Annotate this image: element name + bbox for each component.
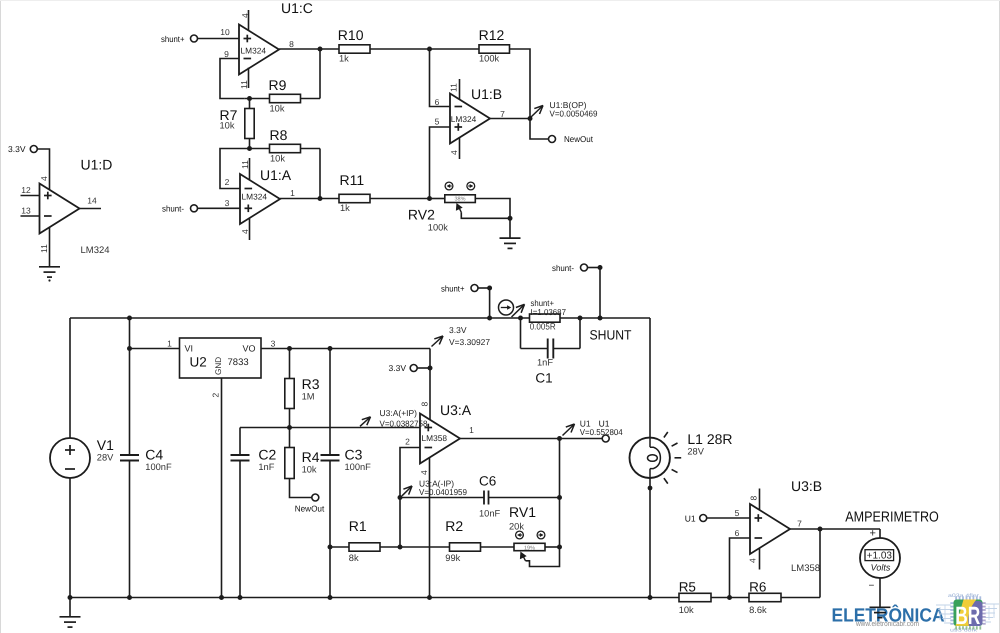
wire +IP row [240, 427, 420, 429]
svg-text:2: 2 [405, 437, 410, 447]
svg-text:R8: R8 [270, 127, 288, 143]
node shunt- rail [598, 316, 603, 321]
svg-text:U3:A(+IP): U3:A(+IP) [380, 408, 418, 418]
wire U1:C output [279, 39, 320, 49]
resistor R10 [320, 27, 430, 63]
svg-text:1k: 1k [340, 203, 350, 213]
node C3/R1 [328, 545, 333, 550]
svg-text:99k: 99k [445, 553, 460, 563]
svg-text:4: 4 [39, 176, 49, 181]
resistor R2 [400, 518, 514, 563]
svg-text:L1 28R: L1 28R [687, 431, 732, 447]
terminal U1 (to U3:B) [685, 508, 750, 524]
svg-text:R6: R6 [749, 579, 766, 594]
svg-text:11: 11 [39, 244, 49, 253]
wire V1 top [69, 318, 71, 438]
node R3/R4 [287, 425, 292, 430]
svg-text:0.005R: 0.005R [530, 322, 556, 332]
resistor R1 [330, 518, 400, 563]
capacitor C6 [400, 474, 560, 519]
resistor R9 [245, 77, 320, 114]
terminal shunt+ (mid) [441, 283, 492, 318]
label AMPERIMETRO [845, 509, 939, 525]
svg-text:LM324: LM324 [241, 46, 267, 56]
svg-text:4: 4 [240, 13, 250, 18]
node C4 bottom [127, 595, 132, 600]
svg-text:NewOut: NewOut [295, 503, 325, 513]
svg-text:R1: R1 [349, 518, 367, 534]
svg-text:1k: 1k [339, 53, 349, 63]
ground under U1:D [39, 267, 60, 282]
svg-text:1M: 1M [302, 392, 315, 402]
resistor R11 [320, 172, 430, 213]
wire U3:A output [460, 438, 602, 440]
svg-text:LM358: LM358 [422, 433, 448, 443]
svg-text:14: 14 [87, 196, 97, 206]
svg-text:RV1: RV1 [509, 504, 536, 520]
node C6 right [557, 495, 562, 500]
resistor R12 [430, 27, 531, 119]
resistor R3 [285, 349, 320, 428]
svg-text:R5: R5 [679, 579, 696, 594]
node U1:C output [318, 47, 323, 99]
svg-text:4: 4 [419, 470, 429, 475]
svg-text:8: 8 [289, 39, 294, 49]
svg-text:2: 2 [225, 177, 230, 187]
svg-text:3: 3 [225, 198, 230, 208]
svg-text:5: 5 [735, 508, 740, 518]
probe U1:B(OP) [531, 100, 598, 119]
svg-text:−: − [869, 580, 875, 591]
svg-text:LM324: LM324 [242, 191, 268, 201]
capacitor C1 [521, 318, 581, 386]
op-amp U3:B [748, 478, 823, 574]
svg-text:10k: 10k [679, 605, 694, 615]
svg-text:R4: R4 [302, 449, 320, 465]
logo ELETRONICA BR [832, 593, 1000, 633]
svg-text:8: 8 [420, 402, 430, 407]
probe U3:A(-IP) [402, 479, 467, 497]
node U1:A output [318, 196, 323, 201]
svg-text:U1:B: U1:B [471, 86, 502, 102]
wire V1 bottom [69, 478, 71, 598]
svg-text:R11: R11 [340, 172, 365, 188]
svg-text:AMPERIMETRO: AMPERIMETRO [845, 509, 939, 525]
svg-text:R9: R9 [269, 77, 287, 93]
svg-text:U2: U2 [190, 355, 207, 370]
probe 3.3V [432, 325, 491, 347]
ground under RV2 [500, 238, 521, 248]
node U2 gnd rail [219, 595, 224, 600]
svg-text:1: 1 [290, 188, 295, 198]
svg-text:I=1.03687: I=1.03687 [531, 307, 567, 317]
node -IP [398, 495, 403, 500]
svg-text:13: 13 [21, 206, 31, 216]
wire U1:B pin5 [430, 116, 451, 198]
wire U1:A feedback (pin2) [220, 149, 250, 189]
svg-text:C1: C1 [535, 371, 552, 386]
svg-text:20k: 20k [509, 522, 524, 532]
svg-text:10k: 10k [302, 464, 317, 474]
terminal U1 (output) [599, 418, 610, 442]
node C2 bottom [238, 595, 243, 600]
op-amp U1:A [240, 158, 292, 240]
svg-text:8.6k: 8.6k [749, 605, 767, 615]
svg-text:U1: U1 [685, 513, 696, 523]
svg-text:U3:B: U3:B [791, 478, 822, 494]
svg-text:U1: U1 [599, 418, 610, 428]
svg-text:1nF: 1nF [258, 462, 274, 472]
svg-text:1nF: 1nF [537, 358, 553, 368]
node C3 bottom rail [328, 595, 333, 600]
battery V1 [50, 437, 114, 478]
svg-text:4: 4 [748, 558, 758, 563]
resistor R4 [285, 428, 320, 498]
wire U1:B output [490, 109, 530, 119]
svg-text:www.eletronicabr.com: www.eletronicabr.com [855, 619, 919, 628]
svg-text:100k: 100k [428, 222, 449, 232]
svg-text:C4: C4 [145, 447, 163, 463]
svg-text:1: 1 [469, 425, 474, 435]
svg-text:+1.03: +1.03 [867, 551, 893, 562]
wire shunt+ to U1:C pin10 [198, 27, 239, 38]
node RV2 input [427, 196, 432, 201]
svg-text:4: 4 [449, 150, 459, 155]
svg-text:10nF: 10nF [479, 509, 501, 519]
node V1/ground rail [68, 595, 73, 600]
potentiometer RV2 [408, 182, 510, 238]
svg-text:LM324: LM324 [81, 245, 110, 256]
resistor R8 [250, 127, 321, 199]
svg-text:shunt-: shunt- [552, 263, 574, 273]
svg-text:BR: BR [955, 602, 980, 630]
svg-text:1: 1 [167, 338, 172, 348]
node R3 top [287, 346, 292, 351]
node below lamp [648, 486, 653, 491]
svg-text:10k: 10k [270, 104, 285, 114]
svg-text:R2: R2 [445, 518, 463, 534]
svg-text:10k: 10k [270, 153, 285, 163]
svg-text:10k: 10k [220, 120, 235, 130]
wire U3:A pin2 [400, 437, 420, 547]
svg-text:11: 11 [240, 160, 250, 169]
node C4 top [127, 316, 132, 321]
svg-text:V1: V1 [97, 437, 114, 453]
node U3:A output column [557, 436, 562, 441]
svg-text:10: 10 [220, 27, 230, 37]
svg-text:8k: 8k [349, 553, 359, 563]
svg-text:shunt+: shunt+ [441, 283, 465, 293]
node U2 pin1 [127, 346, 132, 351]
svg-text:100nF: 100nF [345, 462, 372, 472]
op-amp U1:C [239, 0, 313, 89]
probe U3:A(+IP) [360, 408, 428, 428]
op-amp U1:B [449, 79, 503, 159]
svg-text:V=0.0401959: V=0.0401959 [419, 487, 467, 497]
resistor R6 [749, 579, 820, 615]
svg-text:U1:A: U1:A [260, 167, 292, 183]
svg-text:3.3V: 3.3V [8, 144, 26, 154]
node U1:B output [528, 116, 533, 121]
wire output feedback column [559, 439, 561, 548]
svg-text:9: 9 [224, 49, 229, 59]
svg-text:11: 11 [239, 80, 249, 89]
wire 3.3V to U1:D pin4 [37, 149, 49, 191]
regulator U2 7833 [130, 338, 431, 598]
wire top rail to lamp [649, 318, 651, 438]
svg-text:SHUNT: SHUNT [590, 328, 632, 343]
svg-text:R3: R3 [302, 376, 320, 392]
svg-text:28V: 28V [97, 452, 114, 462]
svg-text:R12: R12 [479, 27, 505, 43]
wire 28V top rail [70, 317, 650, 319]
svg-text:6: 6 [735, 528, 740, 538]
wire VO to U3:A vcc [429, 349, 431, 420]
node RV2 wiper/ground [508, 216, 513, 221]
lamp L1 28R [630, 431, 733, 484]
op-amp U1:D [21, 157, 113, 267]
svg-text:C6: C6 [479, 474, 496, 489]
svg-text:V=0.0382758: V=0.0382758 [380, 418, 428, 428]
wire U1:C feedback (pin9) [220, 49, 245, 99]
svg-text:U1:C: U1:C [281, 0, 313, 16]
terminal 3.3V (top left) [8, 144, 37, 154]
svg-text:C2: C2 [258, 447, 276, 463]
wire shunt- to U1:A pin3 [198, 198, 240, 209]
svg-text:+: + [870, 527, 876, 539]
svg-text:3.3V: 3.3V [389, 363, 407, 373]
probe U1 [563, 418, 623, 437]
svg-text:U3:A: U3:A [440, 402, 472, 418]
svg-text:Volts: Volts [871, 563, 891, 573]
wire U3:B pin6 [730, 528, 751, 598]
svg-text:3: 3 [271, 338, 276, 348]
svg-text:100nF: 100nF [145, 462, 172, 472]
node C1 right [578, 316, 583, 321]
svg-text:6: 6 [435, 97, 440, 107]
svg-text:NewOut: NewOut [564, 134, 594, 144]
svg-text:8: 8 [749, 496, 759, 501]
svg-text:U1:D: U1:D [81, 157, 113, 173]
svg-text:7833: 7833 [228, 357, 249, 368]
node lamp/ground rail [648, 595, 653, 600]
node C1 left [518, 316, 523, 321]
wire lamp to ground rail [649, 477, 651, 597]
op-amp U3:A [419, 402, 474, 598]
capacitor C3 [321, 349, 372, 598]
terminal NewOut (lower) [295, 494, 325, 513]
wire ground rail (bottom) [70, 597, 679, 599]
svg-text:100k: 100k [479, 53, 500, 63]
terminal 3.3V (mid) [389, 363, 431, 373]
node 3.3V terminal [428, 366, 433, 371]
node R7/R9 [247, 96, 252, 101]
ground under voltmeter [870, 607, 891, 617]
node R1/R2 [398, 545, 403, 550]
current probe shunt+ [499, 298, 567, 317]
svg-text:LM324: LM324 [451, 114, 477, 124]
svg-text:C3: C3 [345, 447, 363, 463]
resistor R7 [220, 99, 255, 149]
resistor R5 [679, 579, 749, 615]
node U3:B feedback [818, 527, 823, 532]
svg-text:shunt-: shunt- [162, 204, 184, 214]
voltmeter (ammeter display) [860, 527, 900, 607]
svg-text:R10: R10 [338, 27, 364, 43]
terminal shunt+ (input, top left) [161, 34, 198, 44]
node C3 top [328, 346, 333, 351]
svg-text:shunt+: shunt+ [161, 34, 185, 44]
svg-text:28V: 28V [687, 447, 704, 457]
svg-text:V=0.0050469: V=0.0050469 [550, 109, 598, 119]
wire U1:B pin6 [430, 49, 451, 107]
svg-text:7: 7 [797, 518, 802, 528]
ground bottom left [60, 598, 81, 628]
node RV1 right [557, 545, 562, 550]
svg-text:38%: 38% [454, 197, 465, 203]
svg-text:7: 7 [500, 109, 505, 119]
node shunt+ rail [487, 316, 492, 321]
svg-text:12: 12 [21, 185, 31, 195]
svg-text:GND: GND [214, 357, 223, 375]
svg-text:VI: VI [185, 344, 194, 354]
node R10/R12/pin6 [427, 47, 432, 52]
svg-text:4: 4 [240, 229, 250, 234]
capacitor C2 [231, 428, 277, 598]
wire feedback R6 [819, 529, 821, 598]
svg-text:5: 5 [435, 116, 440, 126]
svg-text:11: 11 [449, 83, 459, 92]
capacitor C4 [120, 318, 172, 598]
svg-text:VO: VO [242, 344, 255, 354]
svg-text:2: 2 [211, 393, 221, 398]
terminal shunt- (mid) [552, 263, 603, 318]
svg-text:RV2: RV2 [408, 207, 435, 223]
node U3:A vee rail [427, 595, 432, 600]
node R7/R8 [247, 146, 252, 151]
svg-text:LM358: LM358 [791, 563, 820, 574]
terminal NewOut (output) [530, 119, 594, 145]
resistor SHUNT 0.005R [530, 314, 632, 343]
svg-text:19%: 19% [524, 545, 535, 551]
wire U1:A output [280, 188, 320, 199]
potentiometer RV1 [509, 504, 560, 567]
terminal shunt- (input) [162, 204, 198, 214]
svg-text:V=3.30927: V=3.30927 [449, 337, 490, 347]
wire U3:B output [790, 518, 880, 529]
node R5/R6 [727, 595, 732, 600]
svg-text:3.3V: 3.3V [449, 325, 467, 335]
